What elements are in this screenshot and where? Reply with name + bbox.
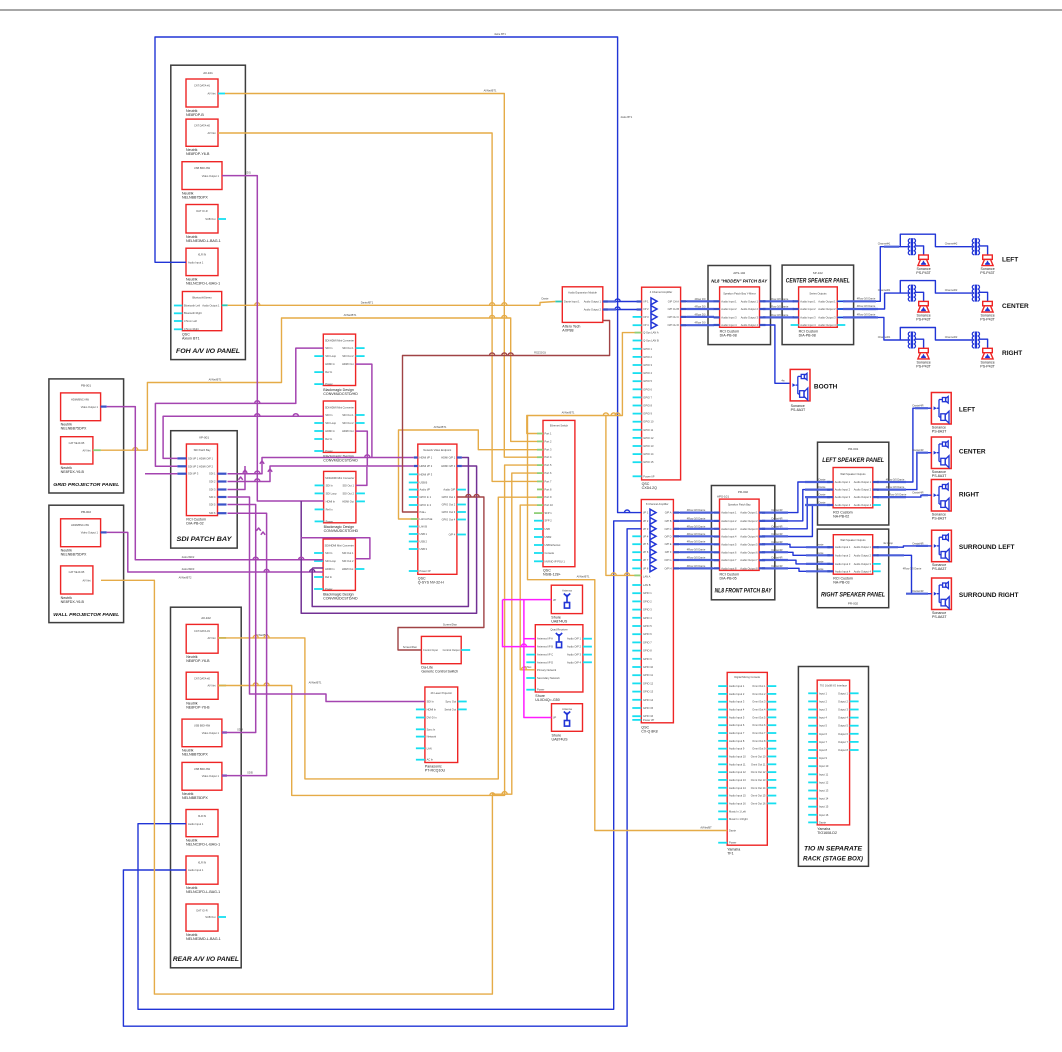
svg-text:Power: Power <box>325 587 332 591</box>
svg-text:O/P D: O/P D <box>664 534 671 538</box>
svg-text:Audio Input 2: Audio Input 2 <box>729 692 745 696</box>
svg-text:Audio O/P 4: Audio O/P 4 <box>567 660 581 664</box>
svg-text:Port 8: Port 8 <box>545 487 552 491</box>
svg-text:PR-001: PR-001 <box>848 447 859 451</box>
svg-text:RACK (STAGE BOX): RACK (STAGE BOX) <box>803 856 864 863</box>
svg-text:CENTER: CENTER <box>959 449 986 456</box>
svg-text:GPIO 11: GPIO 11 <box>643 673 653 677</box>
device AN1 Shure UA874US antenna <box>551 585 582 613</box>
svg-text:Input 13: Input 13 <box>819 789 829 793</box>
wire left panel out3 to RIGHT speaker <box>873 495 932 497</box>
svg-text:CONVMUDCSTD/HD: CONVMUDCSTD/HD <box>323 392 358 396</box>
wire hops dark red <box>466 494 471 497</box>
svg-text:GPIO 5: GPIO 5 <box>643 379 652 383</box>
svg-text:PoE+: PoE+ <box>420 510 427 514</box>
device U5 QSC Q-SYS NV-32-H <box>418 444 457 574</box>
speaker RIGHT 70V tap 2 Sonance PS-P43T <box>982 348 993 359</box>
svg-text:Video Output 1: Video Output 1 <box>81 405 99 409</box>
svg-text:VP-001: VP-001 <box>199 435 209 439</box>
svg-text:I/P 7: I/P 7 <box>643 558 649 562</box>
svg-text:NE8FDX-Y6-B: NE8FDX-Y6-B <box>61 470 85 474</box>
wire right panel out2 to SURROUND RIGHT <box>873 555 932 593</box>
svg-text:GPIO 2: GPIO 2 <box>643 355 652 359</box>
svg-text:APS-101: APS-101 <box>717 495 729 499</box>
wire-end stubs <box>714 300 720 302</box>
svg-text:REAR A/V I/O PANEL: REAR A/V I/O PANEL <box>173 956 239 963</box>
top border rule <box>0 9 1062 11</box>
svg-text:GPIO 13: GPIO 13 <box>643 690 654 694</box>
svg-text:DIA-PB-08: DIA-PB-08 <box>720 334 737 338</box>
svg-text:Omni Out 13: Omni Out 13 <box>751 778 766 782</box>
svg-text:TIO 16x08 I/O Interface: TIO 16x08 I/O Interface <box>820 683 848 687</box>
svg-text:GPIO In 1: GPIO In 1 <box>420 495 432 499</box>
wire SDI bay in1 from converter B <box>163 416 323 458</box>
svg-text:USB BIDI-NW: USB BIDI-NW <box>194 166 211 170</box>
svg-text:Input 14: Input 14 <box>819 797 829 801</box>
svg-text:Power: Power <box>326 519 333 523</box>
svg-text:GPIO 10: GPIO 10 <box>643 665 654 669</box>
svg-text:Audio Output 4: Audio Output 4 <box>854 503 872 507</box>
converter U-B Blackmagic CONVMUDCSTD/HD <box>323 401 355 452</box>
device SDI patch bay <box>186 444 217 516</box>
svg-text:BOOTH: BOOTH <box>814 384 838 391</box>
svg-text:SDI I/P 2 HDMI O/P 2: SDI I/P 2 HDMI O/P 2 <box>188 464 214 468</box>
svg-text:SDI I/P 3: SDI I/P 3 <box>188 472 199 476</box>
device U10 Da-Lite screen control switch <box>421 636 461 663</box>
svg-text:PS-8A3T: PS-8A3T <box>932 516 947 520</box>
svg-text:I/P 1: I/P 1 <box>643 511 649 515</box>
svg-text:Audio Output 7: Audio Output 7 <box>740 558 758 562</box>
svg-text:Audio Input 11: Audio Input 11 <box>729 762 746 766</box>
svg-text:TF1: TF1 <box>727 852 733 856</box>
jack R5 XLR <box>186 810 218 837</box>
svg-text:NS/B-128+: NS/B-128+ <box>543 573 561 577</box>
svg-text:Dante Input 1: Dante Input 1 <box>564 300 580 304</box>
svg-text:GPIO 3: GPIO 3 <box>643 363 652 367</box>
svg-text:NE8FDP-Y6-B: NE8FDP-Y6-B <box>186 659 210 663</box>
svg-text:GPIO 13: GPIO 13 <box>643 444 654 448</box>
svg-text:APS-102: APS-102 <box>733 271 745 275</box>
svg-text:GPIO 10: GPIO 10 <box>643 420 654 424</box>
svg-text:Audio Output 3: Audio Output 3 <box>741 315 759 319</box>
svg-text:Wall Speaker Outputs: Wall Speaker Outputs <box>840 538 866 542</box>
svg-text:USB B: USB B <box>420 481 428 485</box>
svg-text:GPIO 4: GPIO 4 <box>643 616 652 620</box>
svg-text:O/P CH A: O/P CH A <box>668 299 679 303</box>
svg-text:Channel#2: Channel#2 <box>945 335 958 339</box>
svg-text:Dante: Dante <box>819 820 826 824</box>
svg-text:HDMI In: HDMI In <box>427 707 437 711</box>
svg-text:Audio Output 3: Audio Output 3 <box>854 562 872 566</box>
svg-text:Port 5: Port 5 <box>545 463 552 467</box>
svg-text:Bluetooth Right: Bluetooth Right <box>184 311 202 315</box>
wire SDI bay out2 to NV HDMI in2 <box>228 466 414 482</box>
jack J1 CAT DATA-#1 <box>186 79 218 107</box>
svg-text:Audio Input 7: Audio Input 7 <box>721 558 737 562</box>
svg-text:SDI 4: SDI 4 <box>209 495 216 499</box>
svg-text:Audio Output 1: Audio Output 1 <box>584 300 602 304</box>
wire attero out1 to amp1 I/P1 <box>603 301 642 303</box>
svg-text:Audio Input 2: Audio Input 2 <box>835 553 851 557</box>
wire antenna B feed <box>503 600 536 647</box>
svg-text:HDMI I/P 3: HDMI I/P 3 <box>420 472 433 476</box>
svg-text:Q-Sys LAN A: Q-Sys LAN A <box>643 331 659 335</box>
svg-text:I/P 6: I/P 6 <box>643 550 649 554</box>
svg-text:XLR IN: XLR IN <box>198 253 206 257</box>
svg-text:4wire/SDI3: 4wire/SDI3 <box>182 567 195 571</box>
svg-text:LAN: LAN <box>427 746 432 750</box>
svg-text:Audio Output 1: Audio Output 1 <box>854 545 872 549</box>
svg-text:Power I/P: Power I/P <box>643 718 655 722</box>
svg-text:USB BIDI-NW: USB BIDI-NW <box>194 767 211 771</box>
svg-text:Wall Speaker Outputs: Wall Speaker Outputs <box>840 472 866 476</box>
wire NV HDMI out2 loop to converter C HDMI in <box>301 466 476 613</box>
svg-text:8 Channel Amplifier: 8 Channel Amplifier <box>646 502 669 506</box>
svg-text:TIO1608-D2: TIO1608-D2 <box>817 831 837 835</box>
svg-text:HDMI/BNC-NW: HDMI/BNC-NW <box>71 523 90 527</box>
svg-text:SDI1: SDI1 <box>245 171 251 175</box>
svg-text:4Row 3/0 Dante: 4Row 3/0 Dante <box>903 566 922 570</box>
svg-text:Antenna: Antenna <box>562 589 572 593</box>
svg-text:Output 5: Output 5 <box>838 724 849 728</box>
svg-text:O/P CH C: O/P CH C <box>668 315 680 319</box>
svg-text:3.5mm Right: 3.5mm Right <box>184 327 199 331</box>
wire center panel out1 to LEFT chain <box>837 247 908 302</box>
svg-text:SDI Patch Bay: SDI Patch Bay <box>194 448 212 452</box>
svg-text:Video Output 1: Video Output 1 <box>202 731 220 735</box>
svg-text:SDI Loop: SDI Loop <box>325 354 336 358</box>
svg-text:NVR/IO IP PSU 1: NVR/IO IP PSU 1 <box>545 559 566 563</box>
wire REAR cat1 AV net to switch port9 <box>218 497 537 779</box>
svg-text:AV Net: AV Net <box>207 131 215 135</box>
wire converter D HDMI in stub <box>312 567 323 569</box>
svg-text:Audio Input 1: Audio Input 1 <box>188 868 204 872</box>
svg-text:Input 3: Input 3 <box>819 708 827 712</box>
svg-text:NELNE3MD-L-BAG-1: NELNE3MD-L-BAG-1 <box>186 239 221 243</box>
svg-text:Antenna I/P B: Antenna I/P B <box>537 645 553 649</box>
svg-text:PS-P43T: PS-P43T <box>916 365 931 369</box>
svg-text:NE8FDX-Y6-B: NE8FDX-Y6-B <box>61 600 85 604</box>
svg-text:O/P A: O/P A <box>665 511 672 515</box>
transformer T-RIGHT1 <box>908 332 915 349</box>
svg-text:AVNet/BT1: AVNet/BT1 <box>484 89 497 93</box>
svg-text:Audio Output 2: Audio Output 2 <box>741 307 759 311</box>
svg-text:Input 15: Input 15 <box>819 805 829 809</box>
svg-text:Channel#2: Channel#2 <box>945 288 958 292</box>
svg-text:SDI Out 1: SDI Out 1 <box>343 483 355 487</box>
svg-text:SDI In: SDI In <box>325 413 333 417</box>
svg-text:SDI/HDMI Mini Converter: SDI/HDMI Mini Converter <box>325 544 354 548</box>
svg-text:DIA-PB-05: DIA-PB-05 <box>720 576 737 580</box>
svg-text:Audio Output 1: Audio Output 1 <box>818 299 836 303</box>
svg-text:HDMI Out: HDMI Out <box>342 499 354 503</box>
jack J4 SUB out <box>186 205 218 234</box>
svg-text:CAT 5E-RJ45: CAT 5E-RJ45 <box>69 570 85 574</box>
svg-text:O/P CH B: O/P CH B <box>668 307 680 311</box>
svg-text:UA874US: UA874US <box>551 620 568 624</box>
svg-text:USB BIDI-NW: USB BIDI-NW <box>194 724 211 728</box>
svg-text:PS-8A3T: PS-8A3T <box>932 567 947 571</box>
svg-text:Audio Input 1: Audio Input 1 <box>721 299 737 303</box>
speaker surround speaker RIGHT Sonance PS-8A3T <box>932 578 952 610</box>
svg-text:Input 6: Input 6 <box>819 732 827 736</box>
svg-text:Audio Input 4: Audio Input 4 <box>721 323 737 327</box>
wire center panel out3 to RIGHT chain <box>837 317 908 340</box>
svg-text:Audio Input 4: Audio Input 4 <box>835 503 851 507</box>
svg-text:Music In 1 Left: Music In 1 Left <box>729 809 746 813</box>
svg-text:DIA-PB-02: DIA-PB-02 <box>186 522 203 526</box>
svg-text:NELNC3FD-L-BAG-1: NELNC3FD-L-BAG-1 <box>186 890 220 894</box>
svg-text:Digital Mixing Console: Digital Mixing Console <box>734 675 760 679</box>
device PB2 RCI Custom DIA-PB-08 center <box>799 287 838 327</box>
svg-text:I/P 1: I/P 1 <box>643 299 649 303</box>
svg-text:Audio Input 5: Audio Input 5 <box>721 542 737 546</box>
svg-text:O/P 4: O/P 4 <box>449 533 456 537</box>
svg-text:AV Net: AV Net <box>207 636 215 640</box>
svg-text:USB: USB <box>545 527 551 531</box>
panel: RIGHT SPEAKER PANEL <box>817 529 888 608</box>
svg-text:Port 9: Port 9 <box>545 495 552 499</box>
svg-text:Dante: Dante <box>542 297 549 301</box>
svg-text:DVI-D In: DVI-D In <box>427 716 438 720</box>
speaker CENTER 70V tap 2 Sonance PS-P43T <box>982 301 993 312</box>
svg-text:GPIO Out 3: GPIO Out 3 <box>442 510 456 514</box>
speaker RIGHT 70V tap 1 Sonance PS-P43T <box>918 348 929 359</box>
svg-text:Quad Receiver: Quad Receiver <box>550 628 567 632</box>
svg-text:NL8 "HIDDEN" PATCH BAY: NL8 "HIDDEN" PATCH BAY <box>711 279 768 285</box>
svg-text:USB Ethernet: USB Ethernet <box>545 543 561 547</box>
device AN2 Shure UA874US antenna <box>552 704 583 732</box>
svg-text:Audio Input 12: Audio Input 12 <box>729 770 746 774</box>
svg-text:PR-002: PR-002 <box>848 602 859 606</box>
svg-text:GPIO 9: GPIO 9 <box>643 412 652 416</box>
svg-text:AVNet/BT1: AVNet/BT1 <box>562 411 575 415</box>
svg-text:NE8FDP-Y6-B: NE8FDP-Y6-B <box>186 152 210 156</box>
svg-text:Audio Output 8: Audio Output 8 <box>740 566 758 570</box>
converter U-A Blackmagic CONVMUDCSTD/HD <box>323 334 355 385</box>
panel: REAR A/V I/O PANEL <box>171 607 242 968</box>
svg-text:Input 12: Input 12 <box>819 780 829 784</box>
svg-text:Secondary Network: Secondary Network <box>537 676 560 680</box>
svg-text:4Row 3/0 Dante: 4Row 3/0 Dante <box>857 313 876 317</box>
svg-text:Q-SYS NV-32-H: Q-SYS NV-32-H <box>418 581 444 585</box>
svg-text:Output 3: Output 3 <box>838 708 849 712</box>
svg-text:Input 10: Input 10 <box>819 764 829 768</box>
svg-text:4Row 3/0 Dante: 4Row 3/0 Dante <box>857 304 876 308</box>
svg-text:HDMI Out: HDMI Out <box>342 362 354 366</box>
svg-text:Antenna: Antenna <box>562 707 572 711</box>
svg-text:Audio Input 14: Audio Input 14 <box>729 786 746 790</box>
svg-text:I/P 3: I/P 3 <box>643 315 649 319</box>
svg-text:Ref In: Ref In <box>325 575 332 579</box>
svg-text:GPIO 14: GPIO 14 <box>643 452 654 456</box>
svg-text:Audio Input 6: Audio Input 6 <box>729 723 745 727</box>
svg-text:GPIO 16: GPIO 16 <box>643 714 654 718</box>
svg-text:PB-001: PB-001 <box>81 384 91 388</box>
svg-text:Omni Out 2: Omni Out 2 <box>752 692 766 696</box>
svg-text:3.5mm Left: 3.5mm Left <box>184 319 197 323</box>
panel border FOH <box>171 65 246 359</box>
svg-text:GPIO 1: GPIO 1 <box>643 591 652 595</box>
svg-text:SDI/HDMI Mini Converter: SDI/HDMI Mini Converter <box>325 339 354 343</box>
svg-text:I/P: I/P <box>553 716 556 720</box>
svg-text:Output 4: Output 4 <box>838 716 849 720</box>
svg-text:Output 7: Output 7 <box>838 740 849 744</box>
svg-text:Audio Input 15: Audio Input 15 <box>729 794 746 798</box>
svg-text:Power: Power <box>729 841 736 845</box>
wires front patch bay to left speaker panel <box>759 482 833 513</box>
jack R1 CAT <box>186 624 218 653</box>
svg-text:Input 11: Input 11 <box>819 772 829 776</box>
svg-text:Audio Input 3: Audio Input 3 <box>835 495 851 499</box>
svg-text:SDI/HDMI Mini Converter: SDI/HDMI Mini Converter <box>325 406 354 410</box>
wire center panel out2 to CENTER chain <box>837 293 908 309</box>
svg-text:Control Input: Control Input <box>423 648 438 652</box>
svg-text:SUB Out: SUB Out <box>205 915 216 919</box>
svg-text:PS-8A3T: PS-8A3T <box>932 474 947 478</box>
svg-text:Series Outputs: Series Outputs <box>809 291 827 295</box>
jack R2 CAT <box>186 672 218 699</box>
panel: SDI PATCH BAY <box>171 431 238 548</box>
wire FOH cat2 AV net to switch port7 <box>218 133 537 481</box>
svg-text:Output 2: Output 2 <box>838 699 849 703</box>
svg-text:Video Output 1: Video Output 1 <box>81 531 99 535</box>
svg-text:Audio I/P: Audio I/P <box>420 488 431 492</box>
svg-text:Power I/P: Power I/P <box>420 569 432 573</box>
svg-text:PS-P43T: PS-P43T <box>980 318 995 322</box>
svg-text:Input 5: Input 5 <box>819 724 827 728</box>
svg-text:O/P CH D: O/P CH D <box>668 323 680 327</box>
svg-text:GPIO 5: GPIO 5 <box>643 624 652 628</box>
wire right panel out1 to SURROUND LEFT <box>873 546 932 547</box>
device PB1 RCI Custom DIA-PB-08 <box>720 287 760 327</box>
device PB3 RCI Custom DIA-PB-05 <box>720 499 760 570</box>
svg-text:AVNet/BT1: AVNet/BT1 <box>577 575 590 579</box>
svg-text:Sync Out: Sync Out <box>445 700 456 704</box>
panel: LEFT SPEAKER PANEL <box>818 442 889 525</box>
svg-text:Ref In: Ref In <box>325 437 332 441</box>
svg-text:HDMI/BNC-NW: HDMI/BNC-NW <box>71 397 90 401</box>
svg-text:SDI Out 1: SDI Out 1 <box>342 551 354 555</box>
svg-text:Audio Output 1: Audio Output 1 <box>740 511 758 515</box>
svg-text:O/P C: O/P C <box>664 527 671 531</box>
svg-text:Audio Input 6: Audio Input 6 <box>721 550 737 554</box>
svg-text:AVNet/BT: AVNet/BT <box>700 826 712 830</box>
transformer T-LEFT2 <box>972 238 979 255</box>
svg-text:NA-PB-03: NA-PB-03 <box>833 581 849 585</box>
svg-text:PS-8A3T: PS-8A3T <box>791 408 806 412</box>
svg-text:Omni Out 4: Omni Out 4 <box>752 708 766 712</box>
wire attero RS232 to NV PoE <box>403 321 610 513</box>
wire REAR cat2 AV net to switch port5 <box>218 465 537 795</box>
svg-text:AC In: AC In <box>427 758 434 762</box>
svg-text:Ref In: Ref In <box>326 507 333 511</box>
svg-text:PR-002: PR-002 <box>738 490 749 494</box>
junction arrows SDI bay <box>260 461 264 464</box>
svg-text:Audio Expansion Module: Audio Expansion Module <box>568 291 597 295</box>
svg-text:GPIO 1: GPIO 1 <box>643 347 652 351</box>
svg-text:NELNE3MD-L-BAG-1: NELNE3MD-L-BAG-1 <box>186 937 221 941</box>
wire antenna 1 feed <box>503 599 552 601</box>
svg-text:Audio O/P 1: Audio O/P 1 <box>567 637 581 641</box>
wire hops blue <box>615 299 620 302</box>
wire switch to yamaha TF1 dante <box>528 416 728 831</box>
svg-text:SDI PATCH BAY: SDI PATCH BAY <box>177 536 234 543</box>
wire switch port10 to shure primary network <box>520 505 537 670</box>
svg-text:Network Video Endpoint: Network Video Endpoint <box>423 448 451 452</box>
wire left panel out2 to CENTER speaker <box>873 453 932 490</box>
svg-text:Network: Network <box>427 735 437 739</box>
svg-text:Omni Out 15: Omni Out 15 <box>751 794 766 798</box>
svg-text:I/P: I/P <box>553 598 556 602</box>
panel: CENTER SPEAKER PANEL <box>782 265 854 345</box>
svg-text:Audio Input 3: Audio Input 3 <box>721 315 737 319</box>
svg-text:AV Net: AV Net <box>207 684 215 688</box>
svg-text:NELNBB75DPX: NELNBB75DPX <box>182 753 208 757</box>
svg-text:Audio Input 10: Audio Input 10 <box>729 754 746 758</box>
svg-text:DIA-PB-08: DIA-PB-08 <box>799 334 816 338</box>
svg-text:LEFT: LEFT <box>1002 257 1018 264</box>
svg-text:Q-Sys LAN B: Q-Sys LAN B <box>643 339 659 343</box>
panel: TIO IN SEPARATE RACK (STAGE BOX) <box>798 667 868 867</box>
svg-text:Audio Input 4: Audio Input 4 <box>729 708 745 712</box>
svg-text:PS-8A3T: PS-8A3T <box>932 429 947 433</box>
svg-text:Audio Output 5: Audio Output 5 <box>740 542 758 546</box>
svg-text:Serial Out: Serial Out <box>444 707 456 711</box>
svg-text:Audio Input 1: Audio Input 1 <box>835 480 851 484</box>
svg-text:GPIO 15: GPIO 15 <box>643 706 654 710</box>
svg-text:SDI 3: SDI 3 <box>209 488 216 492</box>
svg-text:NE8FDP-B: NE8FDP-B <box>186 113 204 117</box>
wire SDI bay out4 to panasonic SDI in <box>228 497 425 702</box>
svg-text:Screen/Dwn: Screen/Dwn <box>443 623 458 627</box>
wire REAR video2 to SDI bay out6 <box>222 513 267 775</box>
device PB5 RCI Custom NA-PB-03 <box>833 535 872 575</box>
svg-text:Audio Input 13: Audio Input 13 <box>729 778 746 782</box>
svg-text:PT-RCQ10U: PT-RCQ10U <box>425 769 446 773</box>
wire FOH XLR to amp2 I/P1 (top loop) <box>155 37 641 513</box>
device U11 Panasonic PT-RCQ10U projector <box>425 687 458 763</box>
wire hops orange <box>255 303 260 306</box>
svg-text:Audio Input 16: Audio Input 16 <box>729 801 746 805</box>
svg-text:Omni Out 11: Omni Out 11 <box>751 762 766 766</box>
svg-text:NA-PB-02: NA-PB-02 <box>833 514 849 518</box>
svg-text:NL8 FRONT PATCH BAY: NL8 FRONT PATCH BAY <box>715 588 773 595</box>
panel: WALL PROJECTOR PANEL <box>49 505 124 622</box>
svg-text:Audio O/P 2: Audio O/P 2 <box>567 645 581 649</box>
transformer T-RIGHT2 <box>972 332 979 349</box>
svg-text:Power: Power <box>325 449 332 453</box>
svg-text:Port 7: Port 7 <box>545 479 552 483</box>
svg-text:Audio Input 7: Audio Input 7 <box>729 731 745 735</box>
jack CAT grid <box>61 437 93 464</box>
svg-text:GPIO 4: GPIO 4 <box>643 371 652 375</box>
svg-text:SDI In: SDI In <box>427 700 435 704</box>
70V chain center 70V ceiling run <box>900 281 972 294</box>
svg-text:GPIO 9: GPIO 9 <box>643 657 652 661</box>
svg-text:HDMI I/P 2: HDMI I/P 2 <box>420 464 433 468</box>
speaker wall speaker RIGHT Sonance PS-8A3T <box>931 480 951 512</box>
svg-text:Sync In: Sync In <box>427 727 436 731</box>
wire converter D SDI out2 loop <box>301 538 370 559</box>
svg-text:4wire BT1: 4wire BT1 <box>494 32 506 36</box>
wire converter B HDMI out to NV in riser <box>356 431 368 466</box>
svg-text:Port 6: Port 6 <box>545 471 552 475</box>
svg-text:LEFT: LEFT <box>959 407 975 414</box>
svg-text:GPIO Out 1: GPIO Out 1 <box>442 495 456 499</box>
svg-text:Power: Power <box>537 688 544 692</box>
svg-text:PS-P43T: PS-P43T <box>916 318 931 322</box>
